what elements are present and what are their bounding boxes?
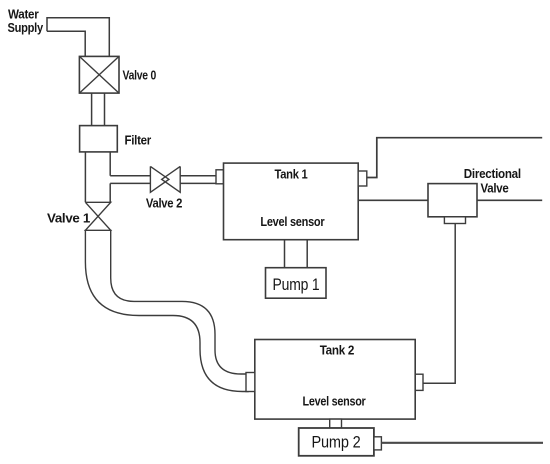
svg-text:Level sensor: Level sensor (260, 215, 324, 229)
tank T2 (255, 340, 415, 420)
wire tank T1 to directional valve to right (358, 199, 542, 201)
S-curve hose valve V1 to tank T2 (85, 230, 248, 391)
pipe filter to valve V1 with branch junction (85, 152, 110, 202)
pump P2 outlet nub (374, 437, 382, 450)
svg-text:Filter: Filter (125, 134, 152, 148)
svg-text:Pump 1: Pump 1 (273, 276, 320, 294)
pipe V0 to filter (92, 93, 105, 126)
svg-text:Valve 2: Valve 2 (146, 197, 183, 211)
svg-text:Level sensor: Level sensor (303, 395, 366, 409)
water supply label (8, 8, 44, 35)
tank T2 bottom nub (330, 419, 342, 428)
pipe branch to valve V2 (110, 176, 150, 184)
svg-text:Directional: Directional (464, 167, 521, 181)
directional valve label (464, 167, 521, 196)
svg-text:Valve 0: Valve 0 (123, 69, 157, 83)
pump P1 connector pipe (285, 240, 308, 268)
svg-text:Pump 2: Pump 2 (312, 434, 361, 452)
valve V1 (85, 202, 110, 230)
svg-text:Tank 1: Tank 1 (275, 167, 308, 181)
svg-text:Water: Water (8, 8, 39, 22)
svg-text:Valve: Valve (481, 182, 509, 196)
pump P1 (266, 268, 327, 299)
pipe valve V2 to tank T1 (180, 176, 216, 184)
tank T2 inlet nub (246, 373, 255, 392)
svg-text:Tank 2: Tank 2 (320, 343, 355, 357)
wire directional valve to tank T2 (423, 224, 455, 384)
tank T2 right nub (415, 374, 424, 390)
wire pump P2 to right (381, 442, 543, 444)
supply pipe elbow (47, 18, 109, 57)
tank T1 (224, 163, 359, 240)
svg-text:Supply: Supply (8, 21, 44, 35)
directional valve bottom nub (444, 217, 465, 224)
tank T1 sensor nub (358, 171, 367, 186)
filter F1 (80, 126, 118, 152)
tank T1 inlet nub (216, 170, 224, 184)
valve V2 (150, 166, 180, 192)
directional valve DV (428, 184, 477, 217)
valve V0 (79, 56, 119, 93)
wire tank T1 sensor to top right (367, 138, 542, 178)
pump P2 (299, 428, 374, 456)
svg-text:Valve 1: Valve 1 (47, 212, 90, 226)
